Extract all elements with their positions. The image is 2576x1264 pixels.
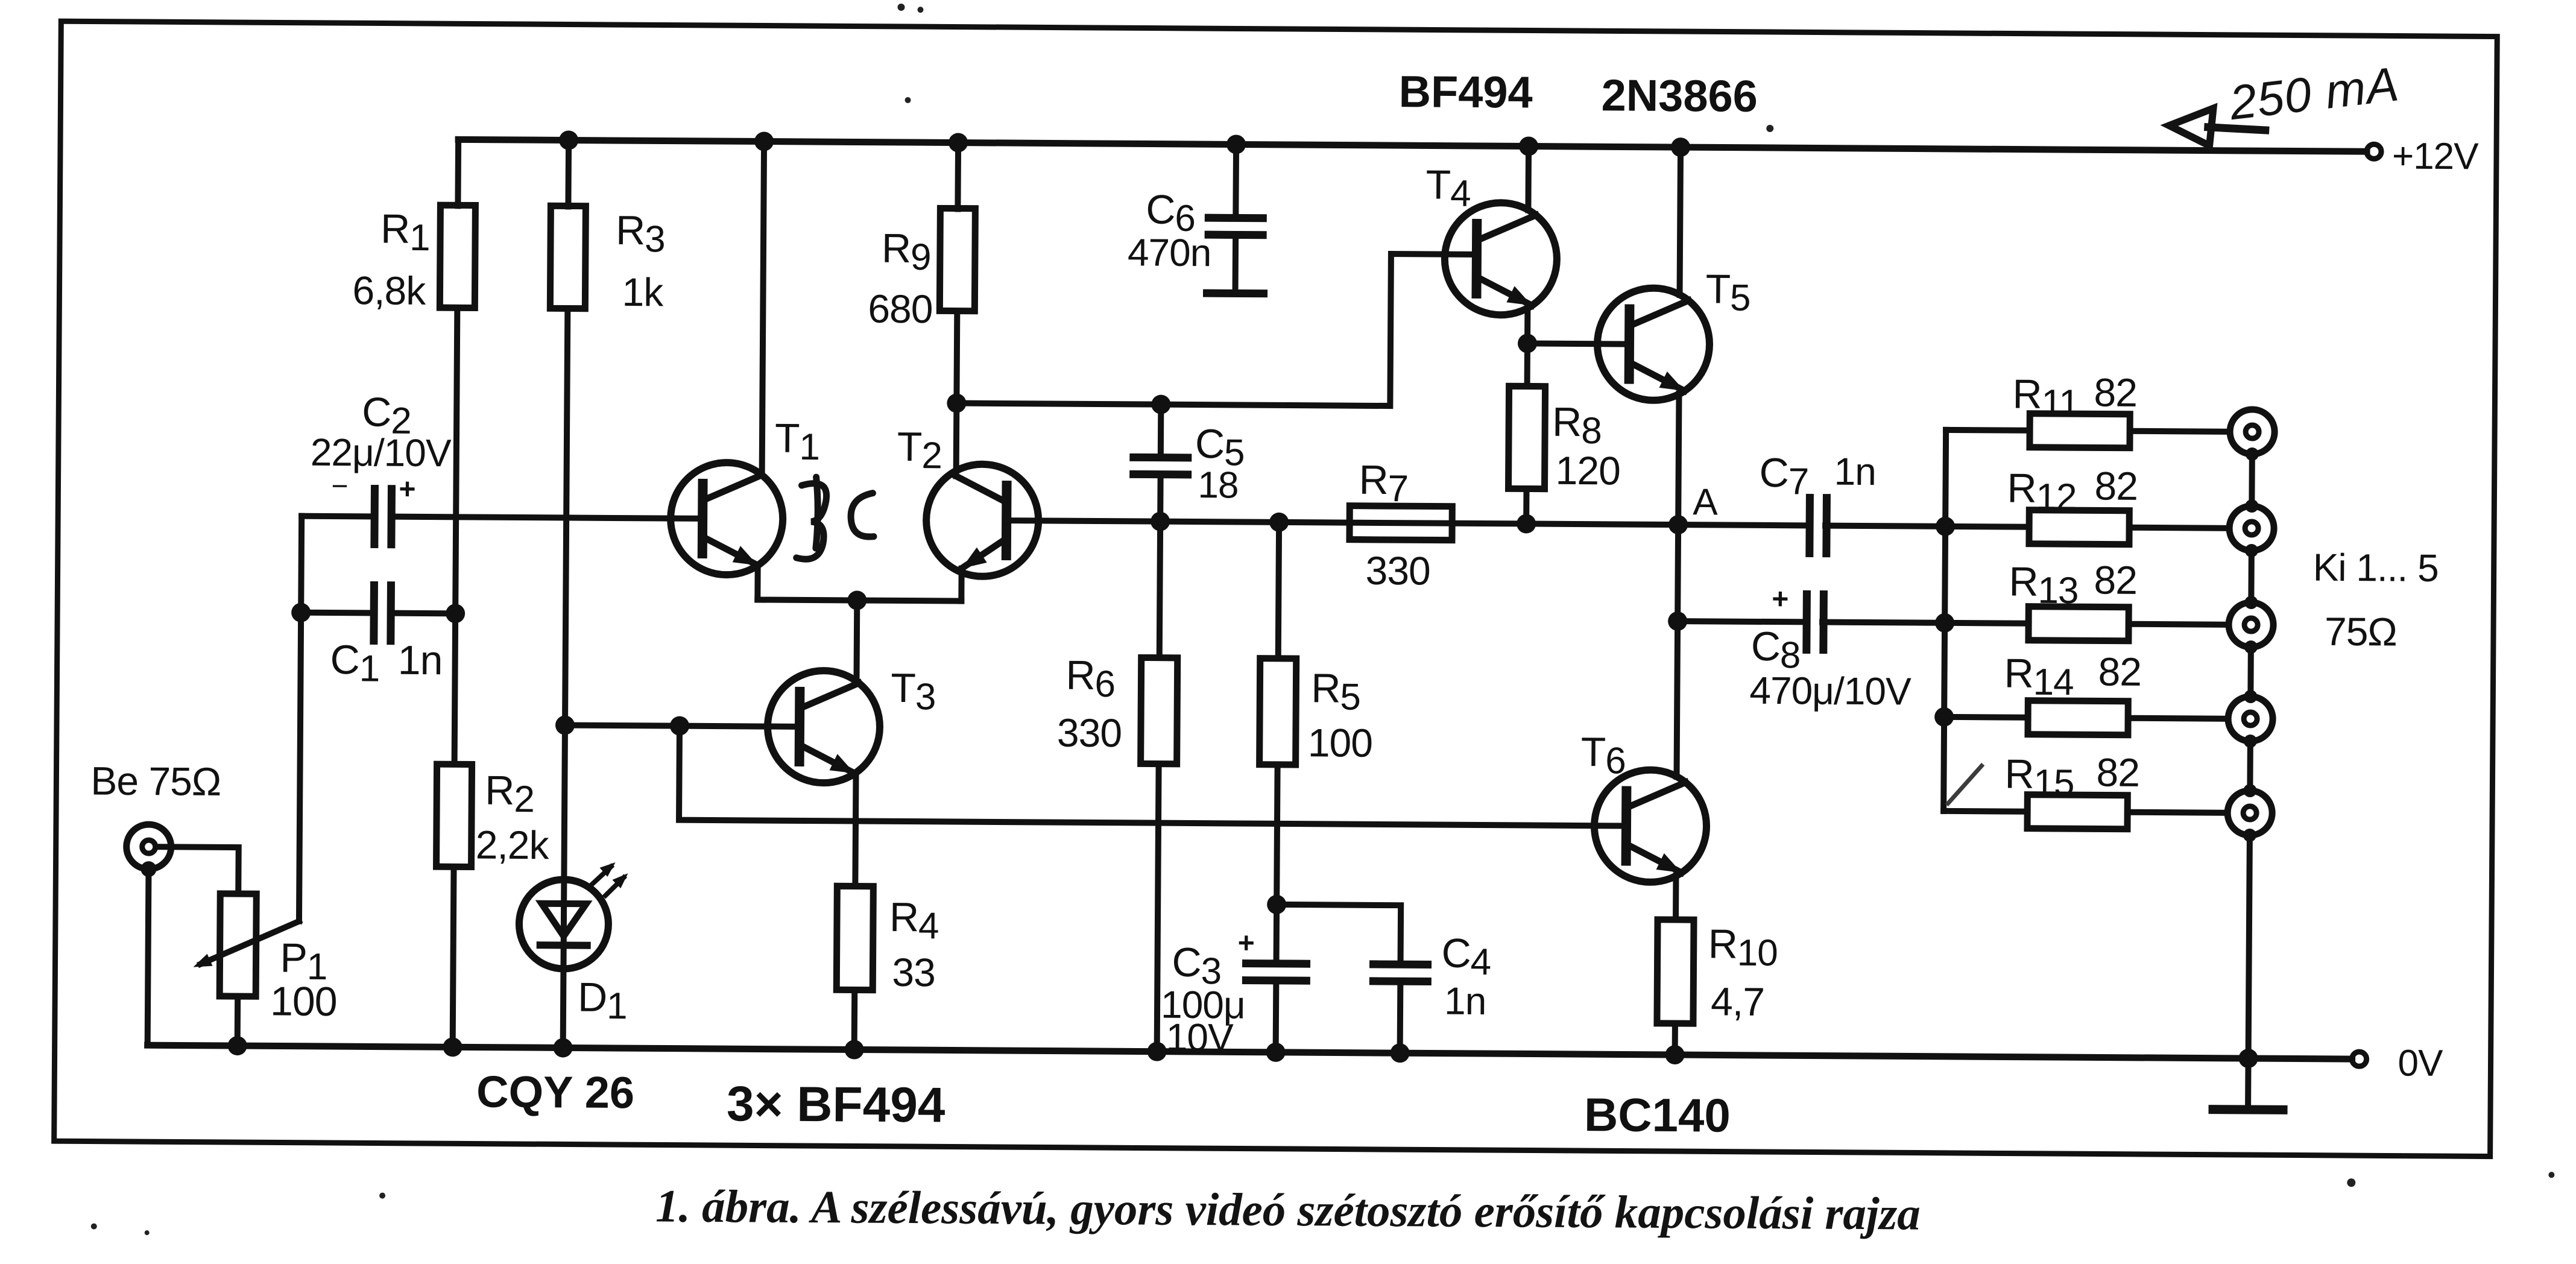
svg-text:1n: 1n <box>1834 450 1876 493</box>
node bus/R12 node <box>1936 517 1955 536</box>
svg-text:100: 100 <box>1308 720 1373 765</box>
svg-text:+: + <box>1238 927 1254 959</box>
wire Ki5 shield to 0V <box>2249 835 2250 1058</box>
transistor T6 emitter stroke <box>1626 844 1682 873</box>
transistor T1 base bar <box>698 484 708 554</box>
svg-text:330: 330 <box>1057 710 1122 756</box>
node top rail / T4 <box>1519 136 1538 156</box>
node C4/0V junction <box>1391 1043 1410 1063</box>
wire R5 to C3/C4 node <box>1277 765 1277 905</box>
svg-text:33: 33 <box>892 950 935 994</box>
svg-text:C4: C4 <box>1441 931 1491 984</box>
capacitor C1 1n plates <box>374 585 391 640</box>
svg-text:82: 82 <box>2094 463 2138 508</box>
transistor T3 emitter arrow <box>830 754 855 773</box>
node R9/T2 collector node <box>947 393 966 412</box>
wire C5 stem top <box>1158 405 1164 458</box>
transistor T5 base bar <box>1624 309 1635 379</box>
transistor T2 body circle <box>926 464 1039 577</box>
svg-text:R12: R12 <box>2007 465 2077 518</box>
wire T2 base to C5 node <box>1006 520 1810 525</box>
resistor R12 body <box>2029 510 2129 545</box>
svg-text:C7: C7 <box>1759 450 1808 503</box>
node top rail / C6 <box>1226 134 1246 154</box>
wire C1 row right <box>391 610 455 617</box>
LED D1 body <box>519 879 608 969</box>
svg-text:4,7: 4,7 <box>1711 979 1764 1024</box>
terminal 0V <box>2352 1052 2367 1066</box>
annotation handwritten 250 mA <box>2226 57 2402 130</box>
capacitor C3 100u plates <box>1246 964 1306 981</box>
svg-text:D1: D1 <box>578 975 627 1028</box>
potentiometer P1 wiper <box>193 921 298 968</box>
node link dot a1 <box>2246 447 2259 461</box>
svg-text:R1: R1 <box>380 206 430 259</box>
node top rail / R9 <box>949 133 968 152</box>
svg-text:R9: R9 <box>882 226 931 279</box>
capacitor C2 22u/10V plates <box>374 488 392 544</box>
capacitor C6 bottom terminal bar <box>1207 289 1264 298</box>
wire feedback to T6 base <box>679 726 1626 826</box>
transistor T1 emitter stroke <box>702 537 758 566</box>
wire R10 bottom to 0V <box>1672 1023 1678 1055</box>
wire T3 base lead <box>565 725 800 726</box>
svg-text:1n: 1n <box>1444 979 1486 1023</box>
resistor R5 body <box>1260 659 1296 765</box>
wire T5 collector riser <box>1680 147 1681 295</box>
svg-text:R10: R10 <box>1708 921 1778 974</box>
wire T4 collector riser <box>1525 146 1532 210</box>
transistor T3 emitter stroke <box>800 745 855 774</box>
node R10/0V junction <box>1665 1045 1685 1064</box>
wire +12V supply rail <box>458 139 2367 151</box>
resistor R6 body <box>1141 657 1178 763</box>
wire R8 top lead <box>1524 343 1530 386</box>
capacitor C6 470n plates <box>1208 218 1263 235</box>
svg-text:Be 75Ω: Be 75Ω <box>90 759 221 804</box>
svg-text:R8: R8 <box>1552 399 1602 452</box>
resistor R15 body <box>2027 795 2127 829</box>
wire T3 emitter to R4 <box>855 773 856 886</box>
connector Ki output 3 <box>2229 602 2273 647</box>
transistor T3 body circle <box>767 671 880 783</box>
wire C6 stem <box>1233 235 1239 293</box>
svg-text:R11: R11 <box>2012 371 2079 425</box>
svg-text:R2: R2 <box>485 768 534 821</box>
node R6/0V junction <box>1148 1042 1167 1061</box>
svg-text:120: 120 <box>1555 448 1620 493</box>
wire R12 left lead <box>1945 523 2029 530</box>
svg-text:82: 82 <box>2096 750 2139 794</box>
resistor R14 body <box>2028 701 2128 735</box>
wire R14 right lead <box>2128 718 2228 719</box>
svg-text:R15: R15 <box>2004 751 2074 804</box>
svg-text:R5: R5 <box>1311 665 1360 718</box>
node shield/0V junction <box>2238 1049 2258 1068</box>
node R3/D1/T3-base junction <box>555 715 575 735</box>
node link dot b2 <box>2244 596 2258 609</box>
wire C8 to output bus <box>1822 622 1945 623</box>
resistor R7 body <box>1350 506 1452 540</box>
svg-text:R14: R14 <box>2004 650 2074 703</box>
wire wiper riser to coupling caps <box>299 516 301 921</box>
svg-text:CQY 26: CQY 26 <box>476 1067 634 1118</box>
wire R15 right lead <box>2127 812 2227 813</box>
wire C2 row left <box>301 513 374 520</box>
svg-text:18: 18 <box>1198 464 1238 506</box>
wire T4 emitter drop <box>1524 308 1530 343</box>
svg-text:T2: T2 <box>897 424 942 476</box>
svg-text:R3: R3 <box>616 207 665 261</box>
wire output shield link 2 <box>2248 551 2255 602</box>
wire R1 bottom through C2row to C1row to R2 <box>455 308 458 764</box>
wire A to C8 node <box>1678 525 1678 621</box>
transistor T6 body circle <box>1594 769 1706 882</box>
wire C2 row right to T1 base <box>391 517 702 519</box>
wire Be center to P1 top <box>156 847 238 894</box>
svg-text:470n: 470n <box>1128 230 1211 274</box>
svg-text:82: 82 <box>2094 557 2137 602</box>
transistor T4 collector stroke <box>1477 215 1536 241</box>
wire R9 bottom to 672 node <box>953 311 960 403</box>
node link dot b4 <box>2243 784 2256 797</box>
wire C7 to output bus <box>1825 526 1945 526</box>
transistor T1 body circle <box>671 463 783 575</box>
svg-text:+12V: +12V <box>2392 135 2480 177</box>
wire C8 row left <box>1678 621 1807 622</box>
svg-text:2N3866: 2N3866 <box>1601 70 1758 121</box>
svg-text:3× BF494: 3× BF494 <box>727 1076 945 1133</box>
svg-text:1k: 1k <box>622 270 664 314</box>
wire R12 right lead <box>2129 528 2229 528</box>
resistor R9 body <box>939 208 975 311</box>
svg-text:BF494: BF494 <box>1398 66 1533 117</box>
svg-text:Ki 1... 5: Ki 1... 5 <box>2312 546 2438 590</box>
resistor R2 body <box>437 764 472 867</box>
node link dot a3 <box>2244 640 2258 654</box>
node Be shield node <box>140 861 156 877</box>
transistor T2 emitter arrow <box>962 548 987 569</box>
wire R13 right lead <box>2129 624 2229 625</box>
wire output bus vertical <box>1943 430 1946 811</box>
node T3 base feedback tap <box>670 716 689 736</box>
wire T1 emitter drop <box>754 565 760 599</box>
svg-text:+: + <box>399 473 415 505</box>
transistor T3 collector stroke <box>800 683 859 709</box>
node top rail / T1 collector <box>754 131 774 151</box>
capacitor C8 470u plates <box>1807 594 1824 649</box>
svg-text:T5: T5 <box>1705 266 1750 318</box>
node R4/0V junction <box>845 1040 864 1059</box>
wire 0V ground rail <box>148 1045 2352 1059</box>
wire R9 riser to rail <box>955 143 961 209</box>
svg-text:T3: T3 <box>891 665 936 718</box>
node C5 top node <box>1151 395 1170 414</box>
wire C4 stem bottom <box>1397 981 1404 1053</box>
transistor T4 body circle <box>1444 203 1557 315</box>
resistor R10 body <box>1657 920 1694 1023</box>
wire R2 bottom to 0V <box>453 867 454 1047</box>
wire R13 left lead <box>1945 620 2028 627</box>
wire R4 bottom to 0V <box>851 990 858 1049</box>
resistor P1 body <box>219 894 256 996</box>
node Ki5 shield bottom <box>2243 829 2256 842</box>
wire T1 collector riser <box>762 142 764 475</box>
wire node to C4 <box>1277 905 1401 964</box>
svg-text:T1: T1 <box>775 416 820 468</box>
transistor T4 emitter stroke <box>1476 277 1532 306</box>
resistor R4 body <box>836 886 873 990</box>
terminal +12V <box>2367 144 2381 159</box>
resistor R13 body <box>2028 607 2129 641</box>
resistor R8 body <box>1509 386 1545 488</box>
wire T6 collector riser <box>1677 621 1678 777</box>
wire P1 bottom to 0V <box>235 996 241 1046</box>
connector Ki output 2 <box>2229 506 2274 551</box>
wire D1 anode wire <box>563 725 565 1048</box>
wire R3 bottom to T3 base node <box>565 308 567 725</box>
scan crease artifact <box>1946 764 1983 805</box>
svg-text:R4: R4 <box>889 894 939 947</box>
svg-text:A: A <box>1693 481 1718 523</box>
svg-text:2,2k: 2,2k <box>476 823 550 868</box>
ground symbol <box>2213 1058 2284 1110</box>
svg-text:0V: 0V <box>2398 1043 2443 1084</box>
capacitor C7 1n plates <box>1810 498 1827 553</box>
svg-text:470μ/10V: 470μ/10V <box>1749 669 1911 713</box>
connector Ki output 4 <box>2228 697 2273 741</box>
transistor T6 base bar <box>1621 791 1632 861</box>
node node A <box>1668 515 1688 534</box>
svg-text:75Ω: 75Ω <box>2325 609 2397 654</box>
capacitor C4 1n plates <box>1373 964 1427 982</box>
transistor T6 collector stroke <box>1626 782 1685 809</box>
transistor T4 emitter arrow <box>1506 286 1532 305</box>
wire C6 drop from rail <box>1233 144 1239 218</box>
wire T2 collector riser <box>953 403 960 476</box>
wire R1 riser to rail <box>455 142 461 206</box>
wire C1 row left <box>301 610 374 616</box>
svg-text:T6: T6 <box>1580 729 1626 782</box>
wire R15 left lead <box>1943 808 2027 815</box>
wire R8 bottom to signal row <box>1523 488 1529 523</box>
transistor T2 emitter stroke <box>962 539 1006 569</box>
svg-text:22μ/10V: 22μ/10V <box>311 431 452 475</box>
node C5/signal node <box>1151 512 1170 531</box>
wire R6 riser <box>1160 522 1160 658</box>
node bus/R13 node <box>1935 613 1954 633</box>
node C1 right junction <box>446 604 465 623</box>
node D1/0V junction <box>554 1038 573 1057</box>
svg-text:−: − <box>331 470 347 502</box>
wire R5 riser <box>1278 522 1279 659</box>
svg-text:82: 82 <box>2094 370 2137 414</box>
node R2/0V junction <box>443 1037 462 1057</box>
node link dot a4 <box>2244 735 2257 748</box>
svg-text:100: 100 <box>270 978 337 1025</box>
node C1 left junction <box>291 603 311 622</box>
transistor T6 emitter arrow <box>1656 853 1682 873</box>
wire output shield link 4 <box>2247 741 2253 791</box>
wire R6 bottom to 0V <box>1157 764 1159 1052</box>
node P1/0V junction <box>228 1036 247 1055</box>
wire C3 stem top <box>1274 905 1280 964</box>
wire T1/T2 emitter join <box>757 599 961 601</box>
wire T2 emitter drop <box>958 569 964 601</box>
resistor R1 body <box>440 205 475 308</box>
svg-text:330: 330 <box>1365 548 1430 593</box>
wire R11 left lead <box>1946 427 2030 434</box>
node R8/signal node <box>1517 514 1536 533</box>
wire C5 stem bottom <box>1157 475 1163 522</box>
node bus/R14 node <box>1934 707 1954 727</box>
transistor T5 collector stroke <box>1629 300 1688 327</box>
wire R3 riser to rail <box>565 140 572 206</box>
node emitter join node <box>847 590 867 610</box>
svg-text:+: + <box>1772 583 1788 615</box>
resistor R3 body <box>550 206 586 308</box>
svg-text:250 mA: 250 mA <box>2226 57 2402 130</box>
node link dot b3 <box>2244 690 2257 703</box>
transistor T3 base bar <box>795 692 805 762</box>
node T4 emitter / T5 base node <box>1518 333 1537 353</box>
connector Ki output 5 <box>2227 791 2272 835</box>
svg-text:R13: R13 <box>2009 559 2079 612</box>
LED D1 light arrows <box>592 862 628 896</box>
node link dot a2 <box>2245 544 2258 557</box>
transistor T5 emitter stroke <box>1629 362 1685 391</box>
wire T3 collector riser <box>853 601 860 681</box>
wire C3 stem bottom <box>1273 981 1280 1052</box>
capacitor C5 18p plates <box>1134 457 1188 475</box>
wire output shield link 3 <box>2247 647 2254 697</box>
svg-text:R7: R7 <box>1359 457 1408 510</box>
wire output shield link 1 <box>2249 454 2255 506</box>
node link dot b1 <box>2245 499 2258 513</box>
wire R11 right lead <box>2130 431 2230 432</box>
transistor T1 emitter arrow <box>733 546 758 565</box>
transistor T5 emitter arrow <box>1659 371 1685 391</box>
svg-text:R6: R6 <box>1065 653 1115 706</box>
transistor T2 collector stroke <box>956 476 1006 503</box>
svg-text:1. ábra. A szélessávú, gyors v: 1. ábra. A szélessávú, gyors videó széto… <box>655 1180 1921 1239</box>
svg-text:BC140: BC140 <box>1584 1088 1731 1142</box>
wire R14 left lead <box>1944 714 2028 721</box>
node C8/T6 collector node <box>1668 611 1687 631</box>
annotation handwritten mark near T1 <box>797 477 874 560</box>
connector Ki output 1 <box>2230 409 2275 454</box>
node top rail / T5 <box>1671 137 1690 157</box>
transistor T2 base bar <box>1002 485 1012 555</box>
transistor T4 base bar <box>1472 224 1482 294</box>
resistor R11 body <box>2030 414 2130 448</box>
annotation arrow for 250 mA <box>2169 108 2269 146</box>
svg-text:6,8k: 6,8k <box>352 268 426 313</box>
wire T6 emitter to R10 <box>1673 876 1679 920</box>
node R5/C3/C4 node <box>1267 895 1286 914</box>
wire 672 row to T4 base riser <box>956 251 1476 406</box>
wire T4 emitter node to T5 base <box>1527 343 1628 344</box>
node C3/0V junction <box>1266 1043 1286 1062</box>
svg-text:82: 82 <box>2098 649 2141 694</box>
transistor T5 body circle <box>1597 288 1709 400</box>
wire Be shield to 0V rail <box>148 869 149 1045</box>
wire T5 emitter to node A <box>1678 394 1679 525</box>
node R5/signal node <box>1269 513 1289 532</box>
svg-text:T4: T4 <box>1425 162 1471 214</box>
node top rail / R3 <box>559 130 578 150</box>
svg-text:C1 1n: C1 1n <box>330 637 442 690</box>
svg-text:680: 680 <box>868 286 933 332</box>
transistor T1 collector stroke <box>702 475 762 501</box>
connector Be input <box>126 824 171 869</box>
